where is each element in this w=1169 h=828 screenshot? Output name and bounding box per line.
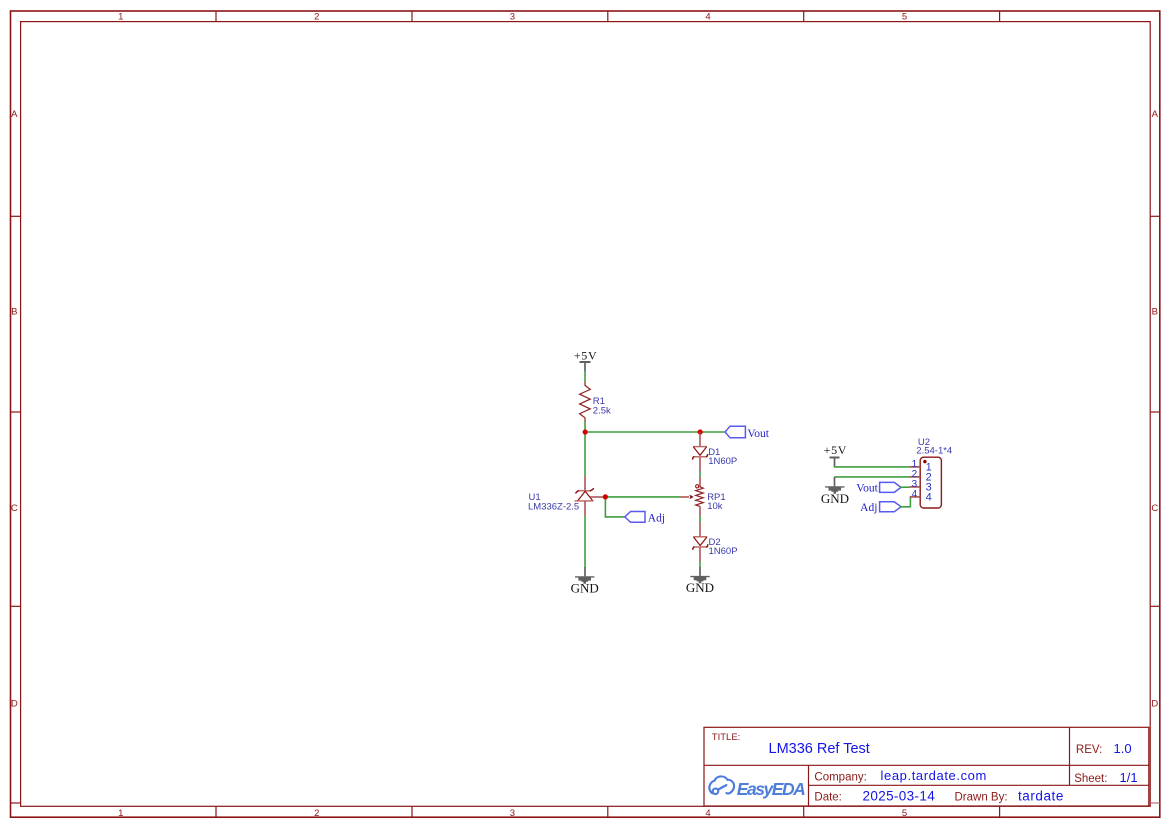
frame row letters right (1151, 109, 1158, 710)
wire Vout flag to U2 pin3 (900, 486, 910, 488)
svg-text:TITLE:: TITLE: (712, 732, 741, 743)
svg-text:C: C (1151, 503, 1158, 514)
Company label and value (814, 768, 987, 783)
diode D2 1N60P (693, 522, 738, 561)
svg-text:Vout: Vout (856, 483, 878, 495)
wire +5V to U2 pin1 (835, 465, 910, 468)
Date label and value (814, 789, 935, 804)
resistor R1 (580, 382, 611, 422)
ground GND (left) (571, 567, 599, 596)
connector U2 2.54-1*4 (910, 437, 953, 508)
svg-text:1: 1 (118, 808, 123, 819)
diode D1 1N60P (693, 447, 738, 472)
wire adj node to Adj flag (605, 497, 625, 517)
svg-text:GND: GND (686, 580, 714, 595)
wire D1 to RP1 (699, 471, 701, 477)
svg-text:4: 4 (912, 489, 918, 500)
svg-text:2025-03-14: 2025-03-14 (863, 789, 936, 804)
Sheet label and value (1074, 770, 1137, 785)
svg-text:D: D (11, 699, 18, 710)
svg-text:2.54-1*4: 2.54-1*4 (916, 445, 952, 456)
svg-text:2.5k: 2.5k (593, 405, 611, 416)
svg-text:Drawn By:: Drawn By: (955, 792, 1008, 804)
EasyEDA logo (709, 776, 805, 799)
svg-text:4: 4 (926, 492, 932, 504)
svg-text:Vout: Vout (747, 428, 769, 440)
svg-text:B: B (11, 307, 17, 318)
svg-text:5: 5 (902, 12, 907, 23)
svg-text:Sheet:: Sheet: (1074, 773, 1107, 785)
svg-text:Date:: Date: (814, 792, 842, 804)
svg-text:+5V: +5V (574, 348, 598, 362)
junction node R1/Vout (583, 429, 588, 434)
junction node D1 branch (698, 429, 703, 434)
wire R1 to node (584, 422, 586, 433)
svg-text:1.0: 1.0 (1114, 741, 1132, 756)
svg-text:GND: GND (571, 581, 599, 596)
svg-text:leap.tardate.com: leap.tardate.com (881, 768, 987, 783)
svg-text:LM336Z-2.5: LM336Z-2.5 (528, 502, 579, 513)
wire +5V to R1 (584, 371, 586, 382)
svg-text:A: A (11, 109, 18, 120)
svg-text:4: 4 (705, 808, 710, 819)
svg-text:3: 3 (510, 12, 515, 23)
frame column numbers top (118, 12, 907, 23)
svg-text:LM336 Ref Test: LM336 Ref Test (769, 741, 870, 757)
wire adj node to RP1 wiper (605, 496, 680, 498)
svg-text:B: B (1152, 307, 1158, 318)
svg-text:Adj: Adj (860, 502, 877, 514)
net flag Adj (right-pointing, U2 side) (860, 502, 901, 514)
svg-text:D: D (1151, 699, 1158, 710)
power flag +5V (U2 side) (824, 443, 848, 467)
Drawn By label and value (955, 789, 1064, 804)
frame column ticks bottom (216, 806, 1000, 817)
title text LM336 Ref Test (769, 741, 870, 757)
wire U1 to GND (584, 516, 586, 568)
svg-text:4: 4 (705, 12, 710, 23)
svg-text:2: 2 (314, 808, 319, 819)
potentiometer RP1 10k (680, 477, 725, 516)
wire node down to U1 (584, 432, 586, 477)
svg-text:+5V: +5V (824, 443, 848, 457)
svg-text:A: A (1152, 109, 1159, 120)
svg-text:1N60P: 1N60P (708, 456, 737, 467)
wire D2 to GND (699, 561, 701, 567)
svg-text:C: C (11, 503, 18, 514)
svg-text:GND: GND (821, 491, 849, 506)
wire GND to U2 pin2 (835, 476, 910, 478)
shunt reference U1 LM336Z-2.5 (528, 477, 605, 516)
frame column ticks top (216, 11, 1000, 22)
svg-text:1/1: 1/1 (1120, 770, 1138, 785)
svg-text:2: 2 (314, 12, 319, 23)
ground GND (right) (686, 567, 714, 595)
title block outline (704, 727, 1149, 806)
frame column numbers bottom (118, 808, 907, 819)
svg-text:1: 1 (118, 12, 123, 23)
svg-text:3: 3 (510, 808, 515, 819)
power flag +5V (main) (574, 348, 598, 371)
wire node to D1 (699, 432, 701, 447)
svg-text:Adj: Adj (648, 512, 665, 524)
frame row ticks right (1150, 216, 1160, 803)
net flag Vout (left-pointing) (725, 426, 770, 440)
ground GND (U2 side) (821, 477, 849, 506)
wire Adj flag to U2 pin4 (900, 497, 910, 507)
svg-text:1N60P: 1N60P (709, 546, 738, 557)
svg-text:10k: 10k (707, 501, 723, 512)
wire main horizontal node to Vout (585, 431, 725, 433)
U2 pin numbers outside (912, 459, 918, 500)
net flag Vout (right-pointing, U2 side) (856, 482, 901, 494)
wire RP1 to D2 (699, 516, 701, 523)
frame row letters left (11, 109, 18, 710)
REV label and value (1076, 741, 1132, 756)
svg-text:EasyEDA: EasyEDA (737, 779, 806, 799)
svg-text:REV:: REV: (1076, 744, 1102, 756)
svg-text:5: 5 (902, 808, 907, 819)
net flag Adj (left-pointing) (625, 512, 665, 525)
frame row ticks left (11, 216, 21, 803)
svg-text:tardate: tardate (1018, 789, 1064, 804)
U2 pin numbers inside (926, 462, 932, 504)
svg-text:Company:: Company: (814, 771, 866, 783)
title block TITLE label (712, 732, 741, 743)
junction U1 adj node (603, 494, 608, 499)
